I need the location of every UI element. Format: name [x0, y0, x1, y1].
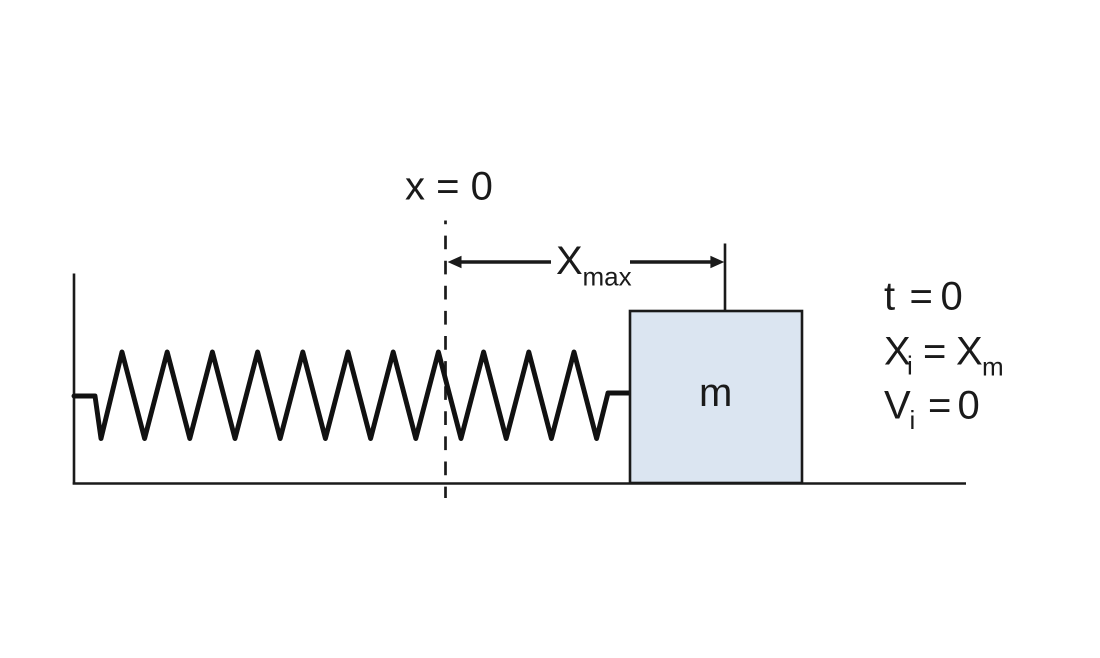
dimension arrow left head	[448, 256, 462, 268]
marker line above mass	[724, 244, 727, 312]
svg-text:=: =	[923, 330, 946, 374]
dimension arrow right segment	[630, 260, 712, 264]
svg-text:t: t	[884, 275, 895, 319]
wall	[73, 274, 76, 485]
svg-text:max: max	[583, 261, 632, 291]
svg-text:0: 0	[958, 384, 980, 428]
svg-text:m: m	[982, 351, 1004, 381]
svg-text:i: i	[907, 351, 913, 381]
svg-text:=: =	[910, 275, 933, 319]
svg-text:V: V	[884, 384, 911, 428]
floor	[73, 482, 966, 485]
spring	[74, 352, 630, 439]
svg-text:0: 0	[941, 275, 963, 319]
dimension arrow right head	[710, 256, 724, 268]
svg-text:X: X	[956, 330, 983, 374]
svg-text:X: X	[556, 239, 583, 283]
dimension arrow left segment	[460, 260, 551, 264]
svg-text:m: m	[699, 371, 732, 415]
svg-text:x = 0: x = 0	[405, 165, 493, 209]
mass block m	[630, 311, 802, 483]
svg-text:i: i	[910, 405, 916, 435]
svg-text:=: =	[928, 384, 951, 428]
dashed reference line x=0	[444, 221, 447, 499]
